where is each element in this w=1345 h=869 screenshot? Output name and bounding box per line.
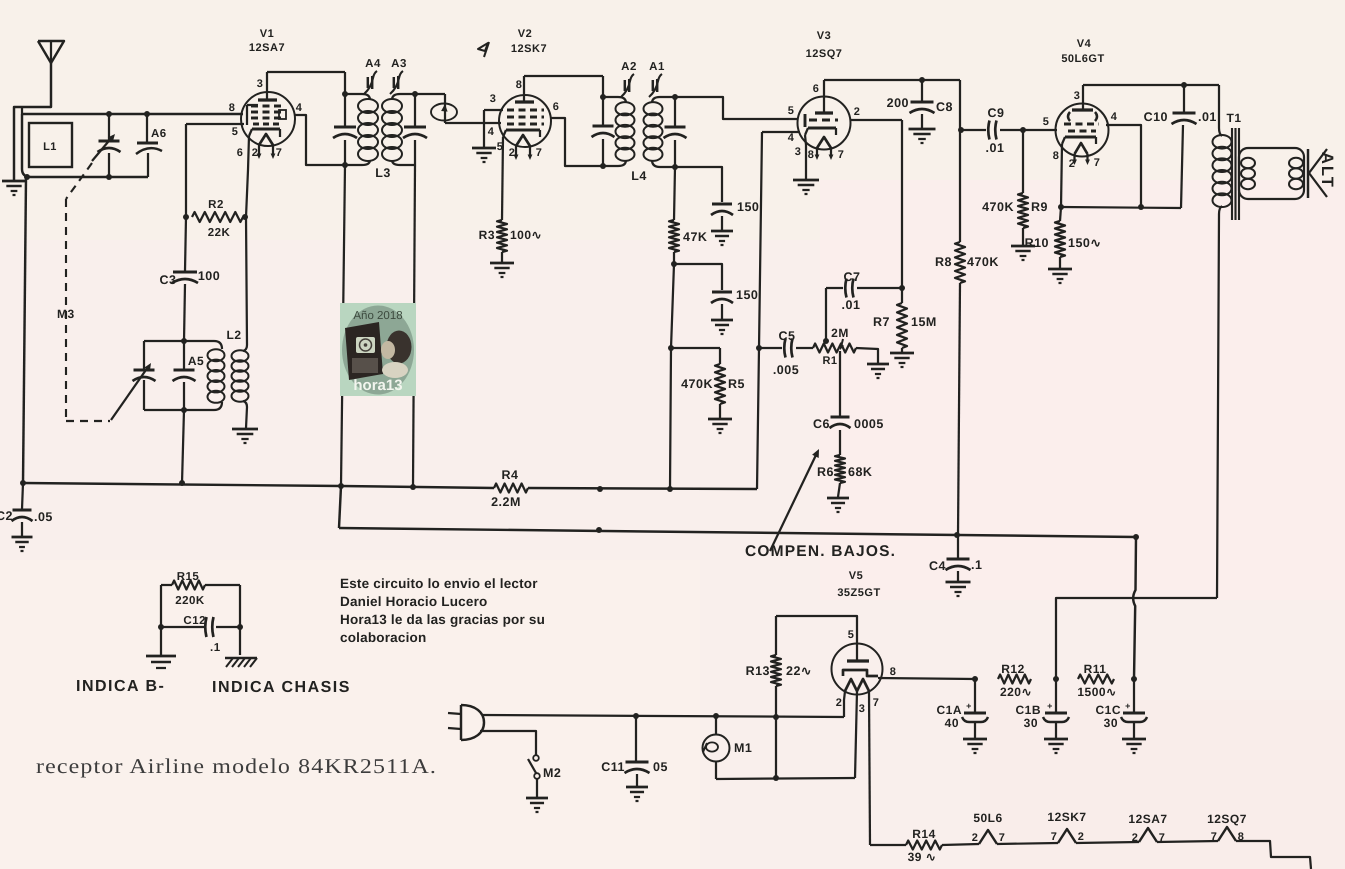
wire V5 cathode out — [878, 678, 975, 679]
svg-text:V3: V3 — [817, 30, 831, 42]
svg-text:R12: R12 — [1001, 662, 1025, 676]
svg-text:470K: 470K — [681, 377, 713, 391]
junction — [958, 127, 964, 133]
ground 150 first — [711, 231, 733, 245]
capacitor C1A — [936, 679, 988, 738]
svg-text:R11: R11 — [1084, 662, 1107, 676]
junction — [919, 77, 925, 83]
resistor R8 — [935, 242, 999, 535]
label V3 — [806, 30, 843, 60]
svg-text:2: 2 — [854, 106, 861, 118]
inductor L4 secondary — [644, 97, 676, 167]
resistor 47K — [669, 167, 707, 264]
wire V1 pin4 — [295, 115, 345, 165]
svg-text:+: + — [966, 701, 972, 711]
svg-text:C3: C3 — [160, 273, 177, 287]
svg-text:150: 150 — [737, 200, 759, 214]
ground antenna — [2, 181, 26, 195]
tube V1 grids — [251, 106, 285, 124]
transformer T1 primary — [1213, 128, 1232, 598]
junction — [342, 91, 348, 97]
switch M2 — [528, 755, 561, 797]
junction — [823, 285, 905, 344]
svg-text:Este circuito lo envio el lect: Este circuito lo envio el lector — [340, 576, 538, 591]
ground R3 — [490, 263, 514, 277]
svg-text:M2: M2 — [543, 766, 561, 780]
label pin4 V2 — [488, 126, 495, 138]
svg-text:05: 05 — [653, 760, 668, 774]
capacitor C9 — [961, 106, 1057, 155]
junction — [672, 94, 678, 170]
stamp hora13 — [340, 303, 416, 396]
junction — [972, 676, 978, 682]
symbol B minus — [146, 656, 176, 668]
tube V3 diode — [804, 114, 807, 127]
wire V1 plate top — [267, 72, 345, 94]
svg-text:50L6: 50L6 — [973, 811, 1002, 825]
inductor L2 secondary — [226, 217, 248, 428]
ground R5 — [708, 419, 732, 433]
svg-text:12SQ7: 12SQ7 — [806, 48, 843, 60]
resistor R5 — [671, 348, 745, 418]
svg-text:Hora13 le da las gracias por s: Hora13 le da las gracias por su — [340, 612, 545, 627]
wire V2 plate top — [524, 76, 603, 97]
svg-text:R15: R15 — [177, 571, 200, 583]
svg-text:INDICA B-: INDICA B- — [76, 678, 165, 695]
junction — [1020, 127, 1026, 133]
label V2 — [511, 28, 547, 55]
wire B+ rail — [1133, 537, 1136, 679]
svg-text:22K: 22K — [208, 227, 231, 239]
svg-text:2: 2 — [836, 697, 843, 709]
svg-text:15M: 15M — [911, 315, 937, 329]
label COMPEN BAJOS — [745, 543, 896, 560]
svg-text:+: + — [1047, 701, 1053, 711]
svg-text:C10: C10 — [1144, 110, 1168, 124]
svg-text:4: 4 — [488, 126, 495, 138]
wire V4 pin4 — [1106, 125, 1141, 207]
svg-text:A6: A6 — [151, 128, 167, 140]
junction — [596, 527, 1139, 540]
svg-text:7: 7 — [276, 147, 283, 159]
junction — [412, 91, 418, 97]
text credit — [340, 576, 545, 645]
svg-text:M3: M3 — [57, 307, 75, 321]
ground C1B — [1044, 739, 1068, 753]
svg-text:220K: 220K — [175, 595, 205, 607]
svg-text:.01: .01 — [842, 298, 861, 312]
svg-text:12SK7: 12SK7 — [511, 43, 547, 55]
svg-text:R13: R13 — [746, 664, 770, 678]
wire L4 primary rail — [602, 97, 604, 166]
trimmer A2 — [621, 61, 637, 97]
svg-text:2.2M: 2.2M — [491, 495, 521, 509]
label V5 — [837, 570, 880, 599]
svg-text:100∿: 100∿ — [510, 228, 542, 242]
capacitor C1C — [1095, 679, 1147, 738]
svg-text:.1: .1 — [210, 642, 221, 654]
junction — [181, 338, 187, 413]
svg-text:colaboracion: colaboracion — [340, 630, 426, 645]
ground C8 — [909, 129, 936, 143]
svg-text:C4: C4 — [929, 559, 946, 573]
label T1 — [1226, 111, 1241, 125]
flag mark — [478, 42, 489, 57]
wire heater bus — [870, 841, 1311, 869]
tube V1 grid bracket — [247, 105, 286, 125]
svg-text:1500∿: 1500∿ — [1077, 685, 1116, 699]
resistor R3 — [479, 137, 542, 262]
wire R8 rail — [959, 80, 961, 242]
svg-text:.01: .01 — [986, 141, 1005, 155]
svg-text:4: 4 — [788, 132, 795, 144]
wire AC neutral — [480, 731, 536, 755]
svg-text:C2: C2 — [0, 509, 13, 523]
potentiometer R1 — [813, 326, 878, 367]
svg-text:220∿: 220∿ — [1000, 685, 1032, 699]
svg-text:5: 5 — [1043, 116, 1050, 128]
junction — [342, 162, 348, 168]
capacitor C5 — [759, 329, 813, 377]
capacitor L4 primary — [592, 126, 615, 137]
tube V1 cathode — [249, 129, 280, 137]
svg-text:8: 8 — [516, 79, 523, 91]
ground L2 — [232, 429, 258, 443]
svg-text:V4: V4 — [1077, 38, 1092, 50]
svg-text:12SK7: 12SK7 — [1047, 810, 1086, 824]
tube V2 envelope — [499, 95, 551, 147]
tube V4 envelope — [1056, 104, 1109, 157]
junction — [1053, 676, 1059, 682]
svg-text:R9: R9 — [1031, 200, 1048, 214]
junction — [600, 94, 606, 169]
wire 47K down rail — [670, 264, 674, 489]
svg-text:C5: C5 — [779, 329, 796, 343]
wire cathode node — [1061, 207, 1181, 208]
svg-text:V2: V2 — [518, 28, 532, 40]
svg-text:Año 2018: Año 2018 — [353, 310, 402, 322]
tube V3 envelope — [798, 97, 851, 150]
capacitor C7 — [826, 270, 902, 340]
ground 150 second — [711, 320, 733, 334]
svg-text:R5: R5 — [728, 377, 745, 391]
resistor R13 — [746, 616, 812, 778]
svg-text:7: 7 — [873, 697, 880, 709]
svg-text:C1B: C1B — [1015, 703, 1041, 717]
pin labels V2 — [497, 79, 560, 159]
svg-text:C6: C6 — [813, 417, 830, 431]
tube V2 cathode — [503, 130, 540, 137]
svg-text:8: 8 — [1238, 831, 1245, 843]
svg-text:2: 2 — [1132, 832, 1139, 844]
svg-text:C1C: C1C — [1095, 703, 1121, 717]
wire to gimmick — [415, 94, 445, 123]
svg-text:6: 6 — [237, 147, 244, 159]
wire gimmick to grid — [445, 122, 484, 124]
heater 12SQ7 — [1207, 812, 1247, 843]
resistor R12 — [998, 662, 1032, 699]
capacitor C3 — [160, 269, 221, 341]
antenna — [14, 41, 64, 180]
tube V2 heater — [514, 135, 533, 160]
label V1 — [249, 28, 285, 54]
svg-text:C1A: C1A — [936, 703, 962, 717]
speaker coil left — [1241, 158, 1255, 189]
tube V1 envelope — [241, 92, 295, 146]
trimmer A3 — [390, 58, 407, 94]
wire L3 primary down rail — [341, 165, 345, 486]
tube V5 cathode — [843, 670, 878, 676]
svg-text:R8: R8 — [935, 255, 952, 269]
junction — [24, 174, 112, 180]
lamp M1 — [703, 716, 753, 779]
junction — [1131, 676, 1137, 682]
wire rail R2-C3 — [185, 217, 186, 271]
svg-text:R3: R3 — [479, 228, 495, 242]
tube V4 plate — [1072, 85, 1093, 110]
label M3 — [57, 307, 75, 321]
svg-text:C9: C9 — [988, 106, 1005, 120]
wire L3 secondary rail — [414, 94, 416, 165]
svg-text:4: 4 — [1111, 111, 1118, 123]
tube V4 cathode — [1062, 137, 1096, 144]
svg-text:.1: .1 — [971, 558, 982, 572]
junction — [20, 480, 673, 492]
svg-text:R10: R10 — [1025, 236, 1049, 250]
tube V3 cathode — [805, 128, 836, 135]
trimmer A1 — [649, 61, 665, 97]
svg-text:22∿: 22∿ — [786, 664, 812, 678]
inductor L2 primary — [208, 349, 225, 403]
svg-text:35Z5GT: 35Z5GT — [837, 587, 880, 599]
wire V5 pin2 — [844, 691, 845, 717]
ground R7 — [890, 353, 914, 367]
ground C1C — [1122, 739, 1146, 753]
svg-text:3: 3 — [859, 703, 866, 715]
svg-text:470K: 470K — [967, 255, 999, 269]
svg-text:7: 7 — [536, 147, 543, 159]
svg-text:150: 150 — [736, 288, 758, 302]
ground C2 — [12, 537, 33, 551]
capacitor C1B — [1015, 679, 1069, 738]
svg-text:8: 8 — [229, 102, 236, 114]
label pin3 V2 — [490, 93, 497, 105]
svg-text:470K: 470K — [982, 200, 1014, 214]
inductor L1 — [29, 123, 72, 167]
junction — [106, 111, 150, 117]
wire legend right — [239, 585, 241, 655]
svg-text:A3: A3 — [391, 58, 407, 70]
ground C4 — [946, 582, 971, 596]
svg-text:C11: C11 — [601, 760, 625, 774]
junction — [1058, 204, 1144, 210]
svg-text:R2: R2 — [208, 199, 224, 211]
wire A5 frame — [144, 341, 222, 410]
tube V4 beam plates — [1068, 112, 1097, 121]
wire V1 cathode to L2 — [246, 136, 249, 217]
coupling loop — [431, 104, 457, 121]
capacitor L4 secondary — [664, 127, 687, 138]
capacitor 150 second — [711, 288, 758, 319]
junction — [183, 214, 248, 220]
svg-text:L3: L3 — [375, 166, 391, 180]
svg-text:2: 2 — [1078, 831, 1085, 843]
wire grid V1 top — [22, 107, 243, 114]
svg-text:A1: A1 — [649, 61, 665, 73]
tube V5 plate — [847, 644, 869, 661]
resistor R9 — [982, 130, 1048, 245]
symbol chassis — [225, 658, 257, 667]
svg-text:4: 4 — [296, 102, 303, 114]
ground V3 — [793, 180, 819, 194]
svg-text:ALT: ALT — [1318, 152, 1336, 189]
tube V3 grid — [809, 119, 838, 122]
tube V4 heater — [1072, 143, 1090, 165]
wire rail A5 down — [182, 410, 184, 483]
pin labels V3 — [788, 83, 861, 161]
capacitor C2 — [0, 483, 53, 536]
heater 12SA7 — [1128, 812, 1167, 844]
svg-text:2: 2 — [972, 832, 979, 844]
wire V3 pin2 — [850, 120, 902, 288]
coil L1 loop — [22, 114, 148, 177]
svg-text:2: 2 — [509, 147, 516, 159]
wire V2 pin6 — [551, 118, 601, 166]
svg-text:C12: C12 — [183, 615, 206, 627]
wire lower B bus — [339, 486, 1136, 537]
wire legend left — [160, 585, 162, 655]
ground R1 — [867, 364, 889, 378]
wire 150b branch — [674, 264, 722, 290]
capacitor C10 — [1144, 85, 1217, 208]
heater 12SK7 — [1047, 810, 1086, 843]
svg-text:+: + — [1125, 701, 1131, 711]
junction — [158, 624, 243, 630]
svg-text:40: 40 — [945, 716, 959, 730]
junction — [773, 714, 779, 781]
heater 50L6 — [972, 811, 1006, 844]
wire V5 pin3 — [855, 691, 857, 778]
ground V2 grid — [472, 148, 496, 162]
wire V4 plate top — [1083, 84, 1219, 86]
svg-text:2: 2 — [252, 147, 259, 159]
speaker cone — [1308, 149, 1327, 198]
svg-text:150∿: 150∿ — [1068, 236, 1101, 250]
inductor L3 secondary — [382, 94, 415, 165]
svg-text:200: 200 — [887, 96, 909, 110]
capacitor C6 — [813, 417, 884, 455]
capacitor L3 primary — [333, 127, 357, 138]
svg-text:12SA7: 12SA7 — [1128, 812, 1167, 826]
svg-text:8: 8 — [890, 666, 897, 678]
svg-text:7: 7 — [1211, 831, 1218, 843]
capacitor C11 — [601, 716, 668, 786]
svg-text:39 ∿: 39 ∿ — [908, 850, 937, 864]
inductor L3 primary — [345, 94, 378, 165]
wire R1 wiper — [839, 351, 841, 416]
resistor R15 — [161, 571, 240, 607]
ground C11 — [626, 787, 648, 801]
wire L1 down rail — [23, 177, 26, 483]
label V4 — [1061, 38, 1104, 65]
tube V3 heater — [815, 137, 834, 160]
svg-text:R1: R1 — [822, 355, 837, 367]
svg-text:R14: R14 — [912, 827, 936, 841]
tube V5 heater — [845, 679, 869, 691]
capacitor A5 tuning var — [111, 363, 156, 420]
V2 grid bracket — [484, 110, 503, 147]
tube V1 plate — [258, 72, 277, 100]
svg-text:6: 6 — [813, 83, 820, 95]
svg-text:A2: A2 — [621, 61, 637, 73]
svg-text:2M: 2M — [831, 326, 849, 340]
svg-text:.05: .05 — [34, 510, 53, 524]
capacitor L3 secondary — [403, 127, 427, 138]
svg-text:A4: A4 — [365, 58, 381, 70]
capacitor C8 — [887, 80, 953, 128]
speaker coil right — [1289, 158, 1303, 189]
ground C1A — [963, 739, 987, 753]
svg-text:V1: V1 — [260, 28, 274, 40]
svg-text:7: 7 — [999, 832, 1006, 844]
svg-text:receptor Airline modelo 84K: receptor Airline modelo 84KR2511A. — [36, 754, 437, 778]
svg-text:Daniel Horacio Lucero: Daniel Horacio Lucero — [340, 594, 488, 609]
svg-text:.005: .005 — [773, 363, 799, 377]
resistor R11 — [1077, 662, 1116, 699]
wire L4 secondary rail — [674, 97, 676, 167]
svg-text:12SA7: 12SA7 — [249, 42, 285, 54]
title receptor — [36, 754, 437, 778]
svg-text:3: 3 — [257, 78, 264, 90]
resistor R10 — [1025, 207, 1102, 268]
wire L3 sec down rail — [413, 165, 415, 487]
svg-text:12SQ7: 12SQ7 — [1207, 812, 1247, 826]
resistor R7 — [873, 288, 937, 352]
svg-text:hora13: hora13 — [353, 377, 402, 394]
svg-text:L2: L2 — [226, 328, 241, 342]
wire AVC bus — [23, 483, 757, 489]
junction — [756, 345, 762, 351]
junction — [1181, 82, 1187, 88]
pin labels V4 — [1043, 90, 1118, 170]
svg-text:C8: C8 — [936, 100, 953, 114]
junction — [668, 345, 674, 351]
svg-text:7: 7 — [1159, 832, 1166, 844]
wire V4 cathode — [1061, 144, 1062, 207]
svg-text:.01: .01 — [1198, 110, 1217, 124]
wire V3 grid rail — [757, 132, 800, 489]
resistor R6 — [817, 455, 872, 497]
svg-text:C7: C7 — [844, 270, 861, 284]
resistor R2 — [192, 199, 243, 239]
svg-text:100: 100 — [198, 269, 220, 283]
svg-text:5: 5 — [788, 105, 795, 117]
capacitor ant tuning — [92, 114, 121, 177]
svg-text:3: 3 — [490, 93, 497, 105]
svg-text:R7: R7 — [873, 315, 890, 329]
wire T1 top — [1218, 85, 1220, 128]
junction — [671, 261, 677, 267]
wire L4 to V3 grid cap — [675, 97, 798, 119]
svg-text:L1: L1 — [43, 141, 57, 153]
label L4 — [631, 169, 647, 183]
tube V2 plate — [515, 76, 534, 102]
svg-text:3: 3 — [795, 146, 802, 158]
plug — [448, 705, 484, 740]
tube V4 grids — [1064, 124, 1099, 131]
arrow compen — [770, 449, 819, 551]
svg-text:3: 3 — [1074, 90, 1081, 102]
